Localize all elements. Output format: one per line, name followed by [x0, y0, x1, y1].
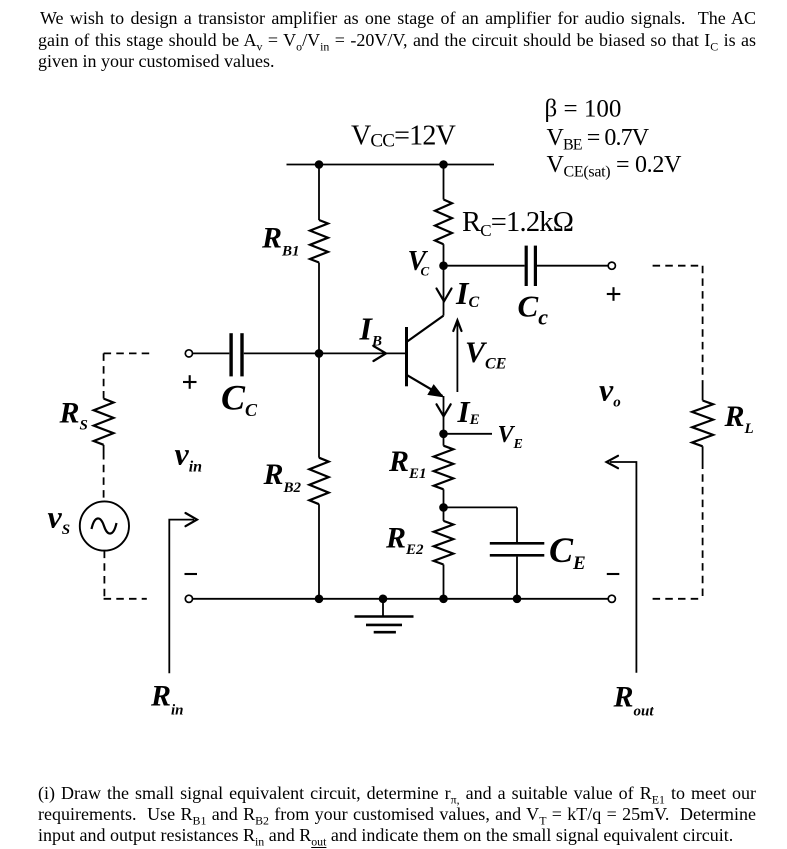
svg-text:CC: CC [221, 378, 258, 421]
svg-text:Rout: Rout [613, 680, 655, 719]
svg-text:β = 100: β = 100 [545, 96, 622, 123]
svg-text:VCE: VCE [465, 336, 506, 373]
svg-text:RL: RL [724, 400, 754, 437]
svg-text:RB1: RB1 [261, 222, 300, 260]
svg-text:Cc: Cc [518, 289, 549, 330]
svg-text:IB: IB [359, 311, 382, 350]
svg-text:RB2: RB2 [263, 458, 302, 496]
svg-text:VBE = 0.7V: VBE = 0.7V [547, 125, 650, 154]
svg-text:Rin: Rin [150, 680, 184, 719]
svg-text:RE1: RE1 [388, 445, 427, 482]
svg-text:C: C [421, 263, 430, 278]
svg-text:RC=1.2kΩ: RC=1.2kΩ [462, 207, 573, 240]
svg-text:IE: IE [457, 394, 480, 429]
svg-text:VCE(sat) = 0.2V: VCE(sat) = 0.2V [547, 152, 683, 181]
svg-text:VCC=12V: VCC=12V [351, 121, 456, 152]
svg-text:RS: RS [59, 397, 88, 434]
svg-text:CE: CE [549, 530, 586, 574]
svg-text:vS: vS [48, 499, 71, 539]
svg-text:vo: vo [599, 372, 621, 411]
svg-text:IC: IC [455, 275, 479, 311]
svg-text:vin: vin [175, 436, 203, 476]
svg-text:VE: VE [498, 422, 523, 452]
svg-text:RE2: RE2 [385, 522, 424, 559]
